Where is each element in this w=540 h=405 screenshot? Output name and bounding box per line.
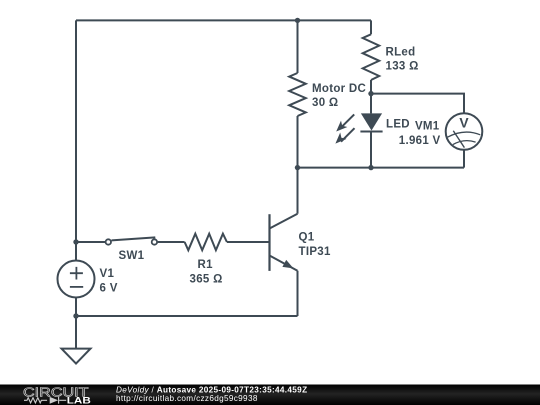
label Motor DC xyxy=(312,83,366,109)
svg-text:http://circuitlab.com/czz6dg59: http://circuitlab.com/czz6dg59c9938 xyxy=(116,394,258,403)
svg-text:SW1: SW1 xyxy=(119,250,145,262)
wire node to voltmeter top xyxy=(371,94,464,114)
svg-text:LED: LED xyxy=(386,119,410,131)
svg-text:Q1: Q1 xyxy=(299,232,315,244)
wire top rail xyxy=(76,19,371,21)
svg-text:30 Ω: 30 Ω xyxy=(312,97,338,109)
resistor RLed xyxy=(363,34,380,80)
svg-text:V1: V1 xyxy=(100,268,115,280)
svg-text:365 Ω: 365 Ω xyxy=(190,274,223,286)
footer logo resistor icon xyxy=(24,397,66,404)
svg-text:R1: R1 xyxy=(198,259,214,271)
svg-text:133 Ω: 133 Ω xyxy=(386,61,419,73)
label RLed xyxy=(386,47,419,73)
wire V1 bottom to ground xyxy=(75,297,77,348)
svg-text:RLed: RLed xyxy=(386,47,416,59)
transistor Q1 xyxy=(270,214,298,271)
footer bar xyxy=(0,385,540,405)
wire RLed top lead xyxy=(370,20,372,34)
LED D1 xyxy=(335,113,382,143)
label R1 xyxy=(190,259,223,286)
wire collector vertical xyxy=(297,168,299,214)
wire switch to R1 xyxy=(158,241,185,243)
node top junction xyxy=(295,18,300,23)
label V1 xyxy=(100,268,118,295)
wire motor top lead xyxy=(297,20,299,73)
label VM1 xyxy=(399,121,441,148)
node RLed-LED junction xyxy=(368,91,373,96)
label Q1 xyxy=(299,232,331,259)
svg-text:6 V: 6 V xyxy=(100,283,118,295)
wire LED cathode xyxy=(370,132,372,168)
switch SW1 xyxy=(106,237,157,244)
voltmeter VM1 xyxy=(446,113,483,150)
node LED bottom junction xyxy=(368,165,373,170)
ground xyxy=(62,349,91,364)
voltage source V1 xyxy=(58,261,95,298)
svg-text:VM1: VM1 xyxy=(415,121,440,133)
resistor R1 xyxy=(185,234,227,251)
wire LED anode xyxy=(370,94,372,114)
svg-text:1.961 V: 1.961 V xyxy=(399,135,441,147)
wire emitter vertical xyxy=(297,271,299,316)
node switch feed junction xyxy=(73,239,78,244)
node motor bottom junction xyxy=(295,165,300,170)
wire R1 to base xyxy=(227,241,269,243)
wire motor bottom lead xyxy=(297,116,299,168)
svg-text:TIP31: TIP31 xyxy=(299,246,331,258)
node bottom rail junction xyxy=(73,313,78,318)
svg-text:V: V xyxy=(459,115,469,130)
wire voltmeter bottom xyxy=(463,150,465,168)
wire switch feed xyxy=(76,241,105,243)
svg-text:LAB: LAB xyxy=(67,396,91,405)
wire RLed bottom lead xyxy=(370,80,372,94)
wire bottom mid rail xyxy=(298,167,465,169)
wire bottom emitter rail xyxy=(76,315,298,317)
svg-text:Motor DC: Motor DC xyxy=(312,83,366,95)
resistor Motor DC xyxy=(289,73,306,116)
wire left rail xyxy=(75,20,77,260)
